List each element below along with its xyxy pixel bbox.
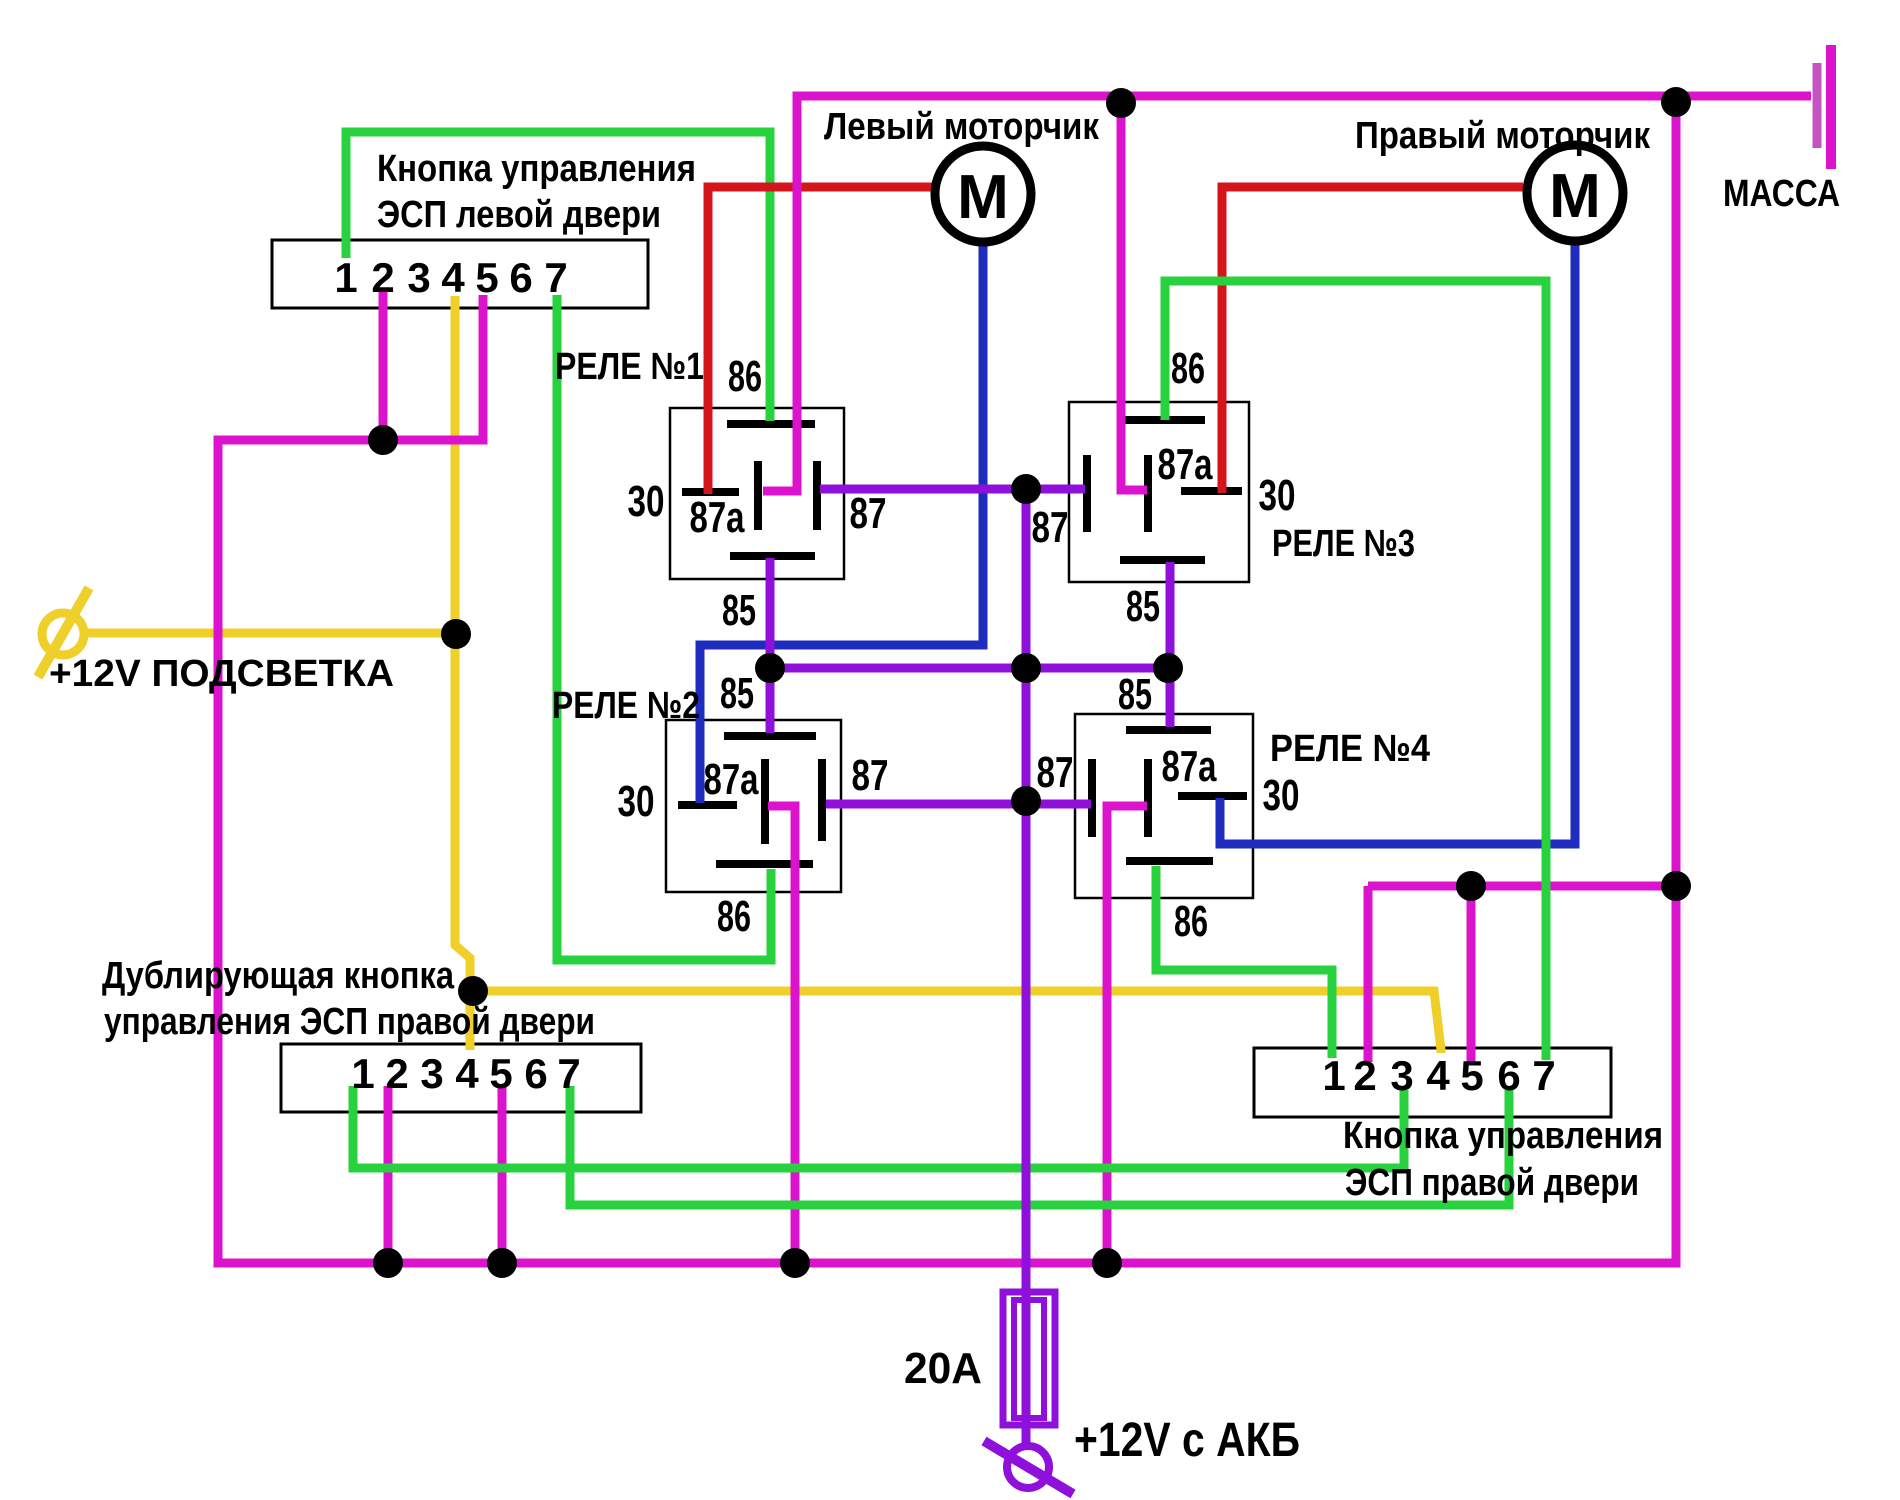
- junction dot yellow lower: [458, 976, 488, 1006]
- svg-text:85: 85: [1118, 670, 1152, 719]
- svg-text:МАССА: МАССА: [1723, 173, 1840, 215]
- relay K4 pin 86 bar: [1126, 857, 1213, 865]
- relay K2 pin 87a bar: [761, 759, 769, 844]
- svg-text:87а: 87а: [690, 493, 745, 542]
- connector J2 box (Дублирующая кнопка управления ЭСП правой двери): [281, 1044, 641, 1112]
- svg-text:4: 4: [441, 254, 465, 301]
- wire purple 85 rail: [770, 664, 1168, 673]
- wire magenta J2.5 to ground: [498, 1086, 507, 1263]
- wire green J2.1 to J3.3: [353, 1086, 1404, 1168]
- svg-text:5: 5: [1460, 1052, 1483, 1099]
- svg-text:87: 87: [852, 751, 889, 800]
- svg-text:Правый моторчик: Правый моторчик: [1355, 115, 1651, 157]
- junction dot 87 rail lower: [1011, 786, 1041, 816]
- junction dot magenta J1.2: [368, 425, 398, 455]
- svg-text:4: 4: [455, 1050, 479, 1097]
- svg-text:30: 30: [628, 477, 665, 526]
- junction dot magenta top rail right: [1661, 87, 1691, 117]
- svg-text:1: 1: [334, 254, 357, 301]
- junction dot ground J2.5: [487, 1248, 517, 1278]
- svg-text:М: М: [957, 163, 1009, 232]
- relay K1 box: [670, 408, 844, 579]
- svg-text:87: 87: [850, 489, 887, 538]
- svg-text:3: 3: [1390, 1052, 1413, 1099]
- relay K3 pin 30 bar: [1181, 487, 1242, 495]
- svg-text:87а: 87а: [1158, 440, 1213, 489]
- wire magenta to J3.5: [1467, 886, 1476, 1062]
- junction dot ground K2.87a: [780, 1248, 810, 1278]
- svg-text:ЭСП левой двери: ЭСП левой двери: [377, 194, 661, 236]
- relay K2 pin 86 bar: [716, 860, 813, 868]
- junction dot 85 rail right: [1153, 653, 1183, 683]
- svg-text:6: 6: [524, 1050, 547, 1097]
- battery +12V АКБ symbol: [1007, 1446, 1049, 1488]
- svg-text:управления ЭСП правой двери: управления ЭСП правой двери: [104, 1001, 595, 1043]
- svg-text:5: 5: [475, 254, 498, 301]
- svg-text:7: 7: [544, 254, 567, 301]
- relay K4 box: [1075, 714, 1253, 898]
- connector J1 box (Кнопка управления ЭСП левой двери): [272, 240, 648, 308]
- svg-text:87а: 87а: [704, 755, 759, 804]
- wire blue left motor to K2.30: [700, 245, 983, 803]
- junction dot 85 rail left: [755, 653, 785, 683]
- wire magenta K1.87a to top rail to МАССА: [763, 96, 1811, 491]
- junction dot 87 rail upper: [1011, 474, 1041, 504]
- +12V подсветка symbol: [42, 613, 84, 655]
- svg-text:87: 87: [1032, 503, 1069, 552]
- relay K2 pin 87 bar: [818, 759, 826, 841]
- svg-text:2: 2: [1353, 1052, 1376, 1099]
- wire yellow +12V podsvetka feed: [86, 629, 456, 638]
- svg-text:6: 6: [509, 254, 532, 301]
- svg-text:1: 1: [1322, 1052, 1345, 1099]
- svg-text:86: 86: [1171, 344, 1205, 393]
- relay K1 pin 30 bar: [682, 488, 739, 496]
- wire green J1.1 to K1.86: [346, 132, 770, 421]
- wire magenta K2.87a down to ground: [768, 806, 795, 1263]
- svg-text:+12V с АКБ: +12V с АКБ: [1074, 1414, 1300, 1467]
- wire green J1.7 to K2.86: [557, 295, 771, 960]
- wire yellow J1.4 down: [455, 296, 470, 1050]
- svg-text:+12V ПОДСВЕТКА: +12V ПОДСВЕТКА: [49, 653, 394, 695]
- junction dot magenta top rail K3 tap: [1106, 88, 1136, 118]
- svg-text:Кнопка управления: Кнопка управления: [1343, 1115, 1663, 1157]
- right motor M2: [1527, 145, 1623, 241]
- svg-text:7: 7: [557, 1050, 580, 1097]
- wire purple K3.85 to K4.85: [1166, 562, 1175, 727]
- svg-text:Дублирующая кнопка: Дублирующая кнопка: [102, 955, 455, 997]
- svg-text:4: 4: [1426, 1052, 1450, 1099]
- svg-text:5: 5: [489, 1050, 512, 1097]
- relay K4 pin 87a bar: [1144, 759, 1152, 837]
- svg-text:Кнопка управления: Кнопка управления: [377, 148, 696, 190]
- wire magenta tap to K3.87a: [1121, 96, 1147, 490]
- wire magenta ground ring bottom and left: [218, 295, 1676, 1263]
- junction dot ground K4.87a: [1092, 1248, 1122, 1278]
- svg-text:ЭСП правой двери: ЭСП правой двери: [1345, 1162, 1639, 1204]
- svg-text:РЕЛЕ №4: РЕЛЕ №4: [1270, 728, 1430, 770]
- junction dot 85 rail mid: [1011, 653, 1041, 683]
- junction dot magenta y886 right: [1661, 871, 1691, 901]
- fuse F1 20A inner: [1014, 1300, 1044, 1418]
- svg-text:86: 86: [1174, 897, 1208, 946]
- svg-text:3: 3: [420, 1050, 443, 1097]
- wire magenta to J3.2: [1364, 886, 1373, 1062]
- svg-text:6: 6: [1497, 1052, 1520, 1099]
- svg-text:РЕЛЕ №2: РЕЛЕ №2: [552, 685, 700, 727]
- relay K2 box: [666, 720, 841, 892]
- wire magenta branch rail y886: [1368, 882, 1676, 891]
- svg-text:3: 3: [407, 254, 430, 301]
- relay K3 pin 85 bar: [1120, 556, 1205, 564]
- junction dot magenta y886 J3.5: [1456, 871, 1486, 901]
- relay K1 pin 85 bar: [730, 552, 815, 560]
- wire green K3.86 to J3.7: [1165, 281, 1546, 1060]
- relay K2 pin 30 bar: [678, 801, 737, 809]
- junction dot ground J2.2: [373, 1248, 403, 1278]
- wire red K3.30 to right motor: [1222, 187, 1523, 493]
- junction dot yellow podsvetka: [441, 619, 471, 649]
- wire magenta right side drop: [1672, 96, 1681, 886]
- svg-text:87: 87: [1037, 748, 1074, 797]
- svg-text:1: 1: [351, 1050, 374, 1097]
- svg-text:86: 86: [728, 352, 762, 401]
- svg-text:7: 7: [1532, 1052, 1555, 1099]
- svg-text:РЕЛЕ №3: РЕЛЕ №3: [1272, 523, 1415, 565]
- left motor M1: [935, 146, 1031, 242]
- svg-text:2: 2: [371, 254, 394, 301]
- relay K3 pin 86 bar: [1125, 416, 1205, 424]
- wire yellow to J3.4: [473, 991, 1441, 1053]
- svg-text:85: 85: [720, 669, 754, 718]
- svg-text:85: 85: [1126, 582, 1160, 631]
- relay K3 pin 87a bar: [1144, 455, 1152, 532]
- wire magenta J1.2 tap: [379, 290, 388, 440]
- wire blue right motor to K4.30: [1220, 245, 1575, 844]
- wire purple K1.87 to K3.87: [820, 485, 1085, 494]
- svg-text:Левый моторчик: Левый моторчик: [824, 106, 1100, 148]
- connector J3 box (Кнопка управления ЭСП правой двери): [1254, 1048, 1611, 1117]
- wire purple main feed to fuse and battery: [1022, 489, 1031, 1447]
- relay K3 box: [1069, 402, 1249, 582]
- wire purple K2.87 to K4.87: [826, 800, 1091, 809]
- svg-text:М: М: [1549, 162, 1601, 231]
- wire purple K1.85 to K2.85: [766, 558, 775, 733]
- svg-text:20А: 20А: [904, 1344, 982, 1393]
- fuse F1 20A outer: [1003, 1292, 1055, 1425]
- svg-text:85: 85: [722, 586, 756, 635]
- wire green J2.7 to J3.6: [570, 1086, 1509, 1205]
- wire magenta K4.87a down to ground: [1107, 806, 1147, 1263]
- svg-text:30: 30: [618, 777, 655, 826]
- svg-text:86: 86: [717, 892, 751, 941]
- relay K4 pin 85 bar: [1126, 726, 1211, 734]
- relay K4 pin 30 bar: [1178, 792, 1247, 800]
- relay K1 pin 86 bar: [727, 420, 815, 428]
- svg-text:2: 2: [385, 1050, 408, 1097]
- relay K3 pin 87 bar: [1083, 455, 1091, 532]
- svg-text:30: 30: [1259, 471, 1296, 520]
- svg-text:30: 30: [1263, 771, 1300, 820]
- relay K1 pin 87a bar: [754, 461, 762, 530]
- wire red K1.30 to left motor: [708, 187, 932, 494]
- svg-text:РЕЛЕ №1: РЕЛЕ №1: [555, 346, 704, 388]
- wire magenta J2.2 to ground: [384, 1086, 393, 1263]
- wire green K4.86 to J3.1: [1156, 866, 1332, 1058]
- relay K4 pin 87 bar: [1088, 759, 1096, 837]
- relay K1 pin 87 bar: [813, 461, 821, 530]
- relay K2 pin 85 bar: [724, 732, 816, 740]
- ground МАССА symbol: [1813, 63, 1822, 148]
- svg-text:87а: 87а: [1162, 742, 1217, 791]
